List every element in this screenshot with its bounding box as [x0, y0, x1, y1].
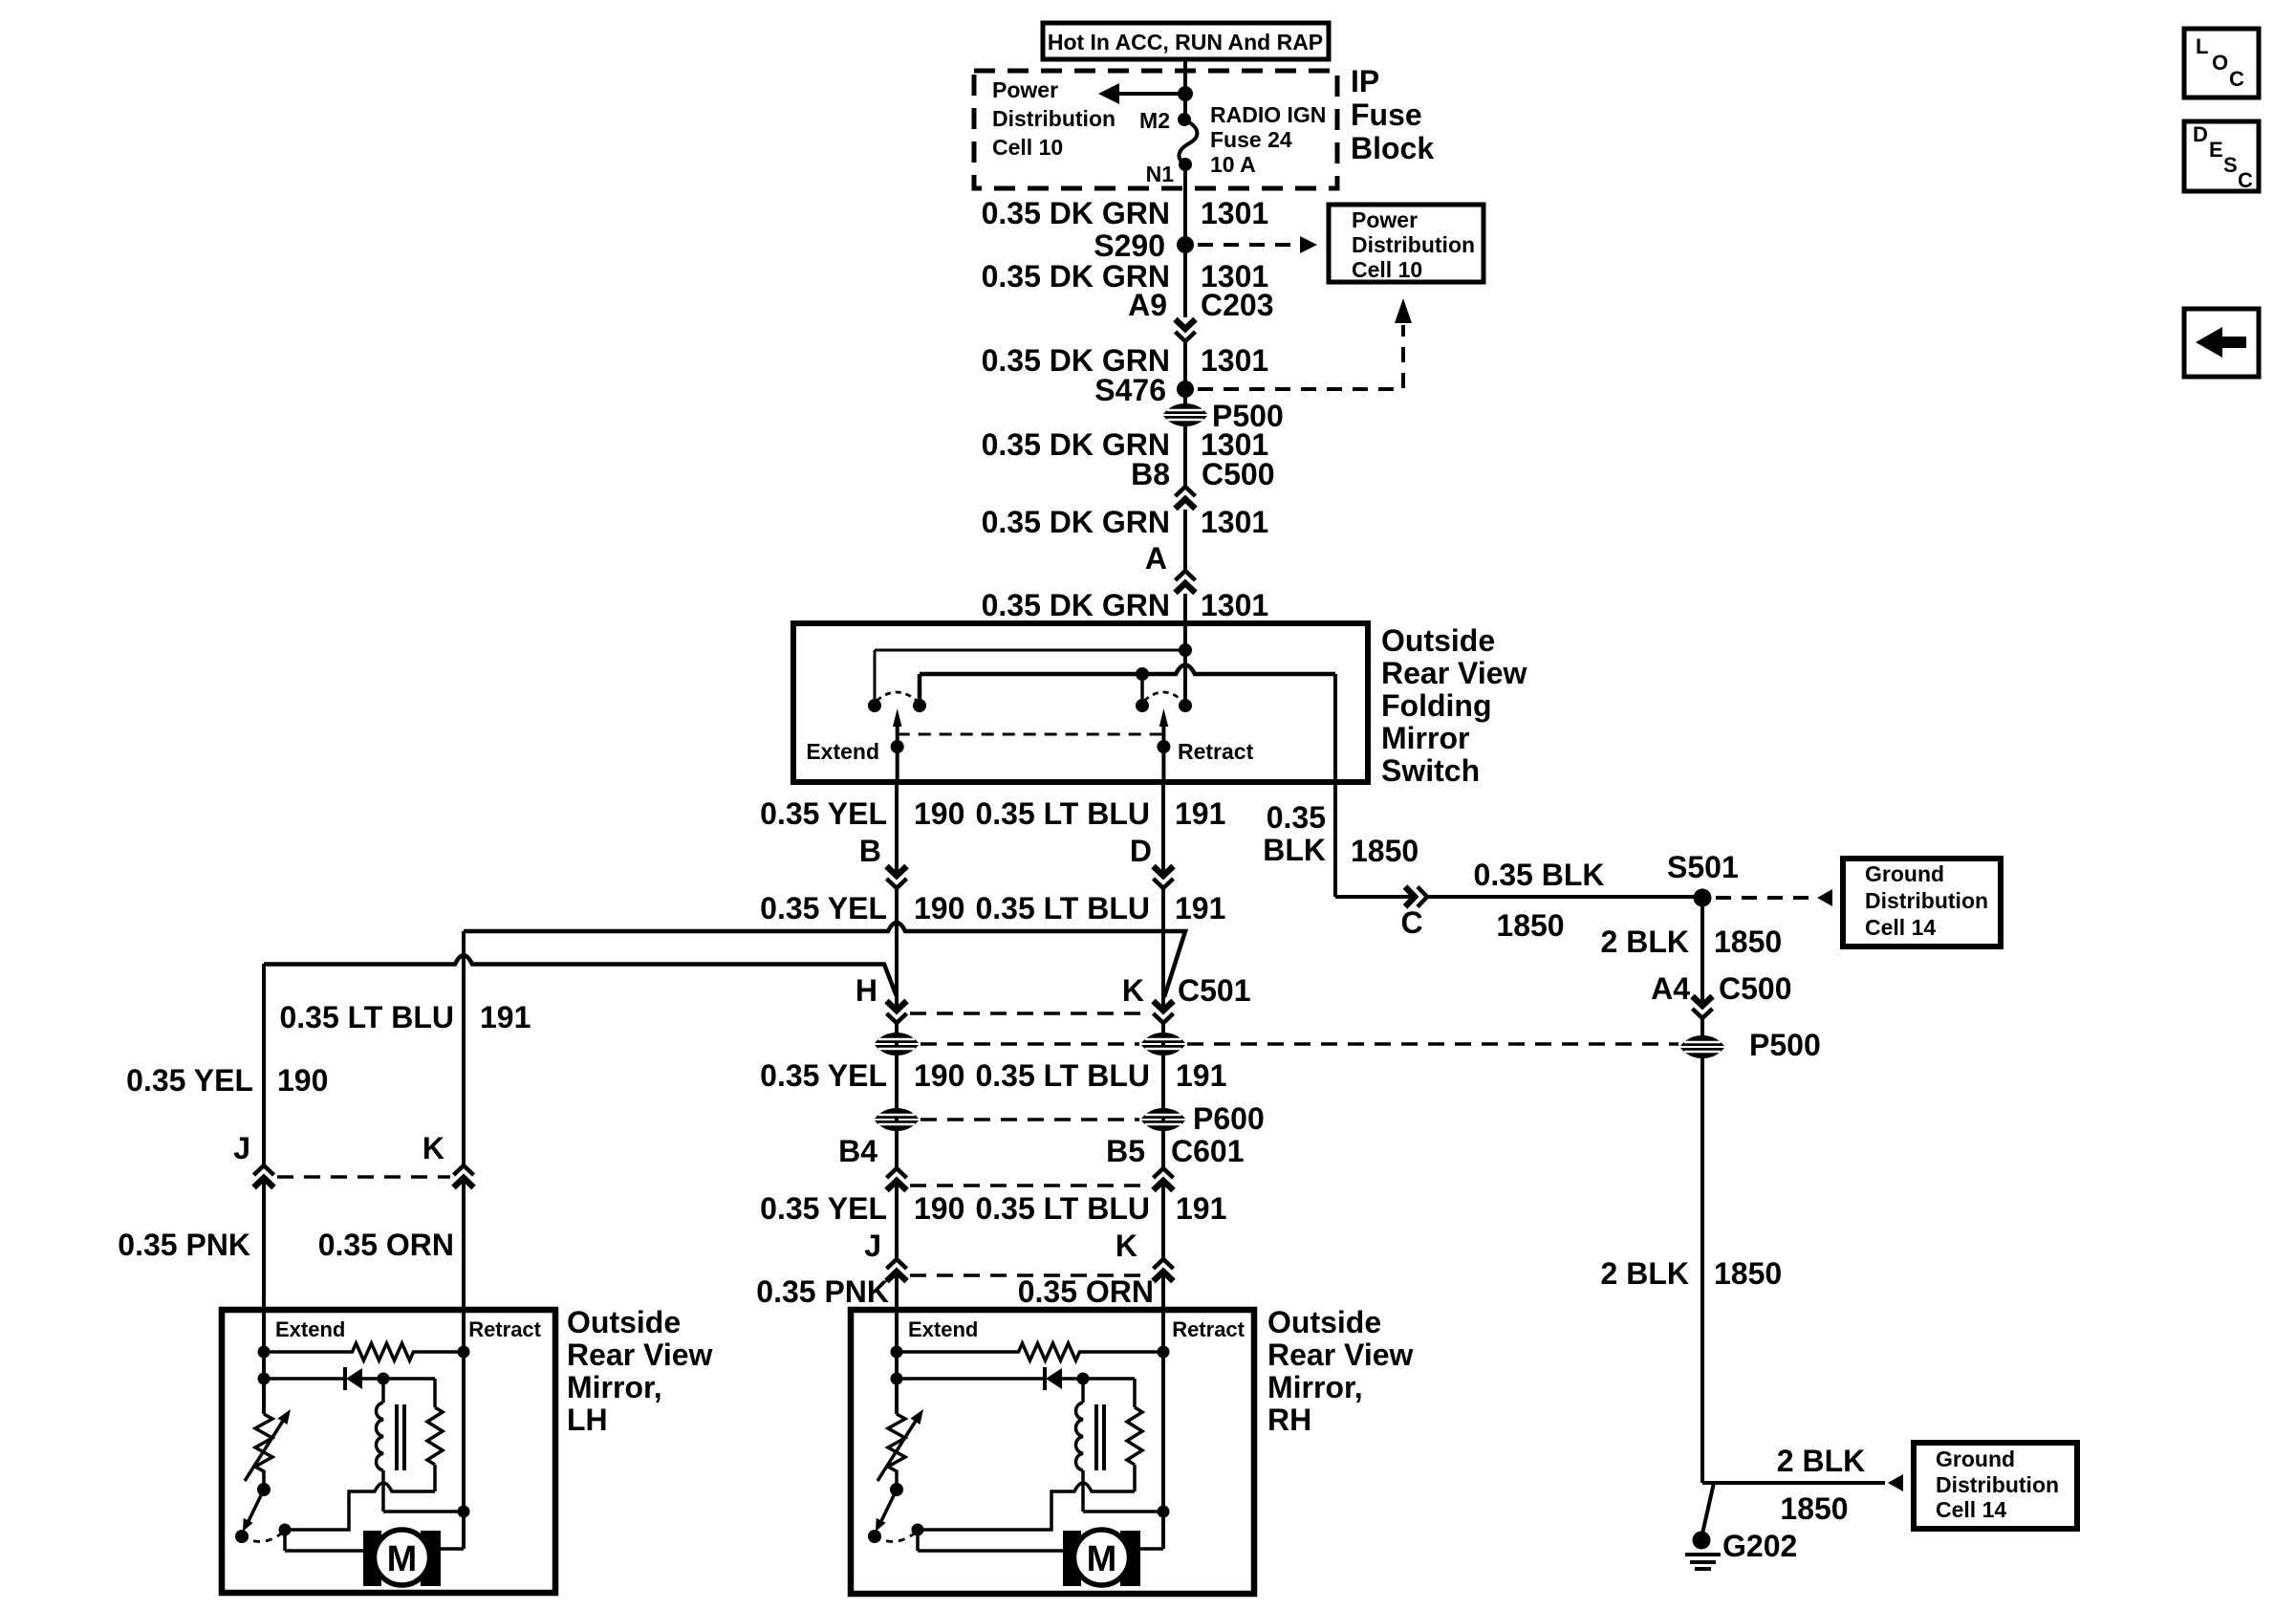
wire label 0.35 LT BLU 191 (left)	[279, 1000, 531, 1034]
svg-text:Rear View: Rear View	[567, 1338, 713, 1372]
svg-text:S476: S476	[1094, 373, 1166, 407]
RH mirror title	[1267, 1305, 1414, 1437]
connector arrow C500 (ground)	[1693, 996, 1713, 1018]
label box: Hot In ACC, RUN And RAP	[1043, 23, 1329, 59]
svg-text:1850: 1850	[1780, 1491, 1848, 1526]
wire: C203 to S476	[1183, 340, 1187, 404]
svg-text:A9: A9	[1128, 288, 1167, 322]
RH mirror connector dashed boundary	[910, 1273, 1151, 1277]
diode	[897, 1367, 1090, 1390]
connector arrow C203	[1176, 319, 1196, 341]
wire label 0.35 DK GRN 1301 (row 4)	[982, 427, 1269, 462]
svg-text:Switch: Switch	[1381, 753, 1480, 788]
svg-text:10 A: 10 A	[1210, 152, 1256, 177]
fuse name label	[1210, 102, 1326, 177]
connector C601 pin B5	[1106, 1134, 1244, 1168]
svg-text:C500: C500	[1719, 971, 1792, 1006]
svg-text:K: K	[422, 1131, 444, 1165]
LH mirror pin K	[422, 1131, 444, 1165]
wire: P500 to ground branch	[1700, 1057, 1704, 1483]
wire: C500 to node A	[1183, 510, 1187, 571]
svg-text:BLK: BLK	[1263, 833, 1326, 867]
switch title label	[1381, 623, 1527, 788]
svg-text:0.35 DK GRN: 0.35 DK GRN	[982, 588, 1170, 622]
wire label 0.35 YEL 190 (row 3)	[760, 1058, 964, 1093]
connector arrow below pin D	[1154, 866, 1174, 888]
wire label 0.35 DK GRN 1301 (row 2)	[982, 259, 1269, 294]
svg-text:Retract: Retract	[1178, 739, 1254, 764]
wire: into switch	[1183, 594, 1187, 650]
svg-text:0.35 YEL: 0.35 YEL	[760, 1191, 887, 1226]
wire label 2 BLK 1850 (lower)	[1601, 1256, 1783, 1291]
svg-text:0.35 DK GRN: 0.35 DK GRN	[982, 196, 1170, 230]
DESC icon box	[2184, 121, 2259, 192]
wire label 0.35 LT BLU 191 (row 3)	[975, 1058, 1226, 1093]
limit switch wiper	[235, 1490, 264, 1543]
svg-text:Fuse 24: Fuse 24	[1210, 127, 1292, 152]
wire label 0.35 DK GRN 1301 (row 6)	[982, 588, 1269, 622]
wire: coil tail to retract wire	[383, 1470, 464, 1512]
svg-text:1850: 1850	[1714, 1256, 1782, 1291]
svg-text:B8: B8	[1131, 457, 1170, 491]
wire label 2 BLK (branch)	[1777, 1444, 1865, 1478]
svg-text:Distribution: Distribution	[992, 106, 1116, 131]
Extend label (LH)	[275, 1317, 345, 1341]
svg-text:0.35 ORN: 0.35 ORN	[1018, 1274, 1154, 1309]
Outside Rear View Folding Mirror Switch box	[793, 623, 1368, 782]
wire label 0.35 LT BLU 191 (row 2)	[975, 891, 1225, 925]
retract wiper arrow	[1157, 708, 1170, 782]
Retract label (LH)	[468, 1317, 541, 1341]
switch pin A	[1145, 541, 1167, 576]
mirror LH: retract feed wire	[458, 1316, 470, 1549]
wire: node to fuse terminal M2	[1183, 94, 1187, 120]
wire: feed to extend contact	[868, 650, 881, 712]
Power Distribution Cell 10 label (in fuse block)	[992, 77, 1116, 160]
wire: shunt return (hops over coil tail)	[912, 1483, 1136, 1536]
svg-text:Folding: Folding	[1381, 688, 1492, 723]
ground G202	[1685, 1529, 1797, 1569]
svg-text:0.35 BLK: 0.35 BLK	[1474, 858, 1605, 892]
pin label M2	[1139, 108, 1170, 133]
svg-text:C601: C601	[1171, 1134, 1245, 1168]
dashed arrow S290 to Power Distribution Cell 10	[1198, 236, 1317, 253]
RH mirror pin J	[864, 1229, 881, 1263]
svg-text:Rear View: Rear View	[1267, 1338, 1414, 1372]
svg-text:J: J	[233, 1131, 250, 1165]
connector arrow C601 (D wire)	[1154, 1168, 1174, 1190]
branch bus H2 to LH mirror extend (hops over K branch)	[264, 955, 897, 995]
svg-text:N1: N1	[1146, 162, 1175, 186]
bulkhead dashed boundary to P500	[921, 1042, 1679, 1046]
switch coupling dashed link	[898, 733, 1164, 736]
wire label 0.35 LT BLU 191 (row 4)	[975, 1191, 1226, 1226]
motor M	[1063, 1530, 1140, 1586]
svg-text:D: D	[2193, 122, 2208, 146]
retract switch blade (dashed)	[1144, 692, 1182, 701]
wire: switch Retract output D (0.35 LT BLU 191)	[1161, 782, 1165, 1316]
svg-text:0.35 YEL: 0.35 YEL	[126, 1063, 253, 1098]
svg-text:0.35 YEL: 0.35 YEL	[760, 1058, 887, 1093]
svg-text:B5: B5	[1106, 1134, 1145, 1168]
wire: shunt return (hops over coil tail)	[279, 1483, 436, 1536]
dashed link S476 to Power Distribution Cell 10	[1198, 298, 1412, 389]
svg-text:0.35 LT BLU: 0.35 LT BLU	[975, 891, 1150, 925]
svg-text:Hot In ACC, RUN And RAP: Hot In ACC, RUN And RAP	[1048, 30, 1323, 54]
svg-text:K: K	[1116, 1229, 1137, 1263]
junction node at fuse feed	[1178, 86, 1193, 101]
svg-text:P500: P500	[1749, 1028, 1821, 1062]
motor M	[363, 1530, 441, 1586]
diode	[264, 1367, 390, 1390]
limit switch dashed blade	[242, 1532, 284, 1541]
connector C203 pin A9	[1128, 288, 1273, 322]
svg-text:191: 191	[1176, 1191, 1226, 1226]
connector C500 pin B8	[1131, 457, 1274, 491]
relay coil	[376, 1379, 383, 1470]
svg-text:0.35 PNK: 0.35 PNK	[756, 1274, 889, 1309]
svg-text:S501: S501	[1667, 850, 1739, 884]
relay core	[397, 1404, 404, 1470]
wire label 0.35 YEL 190 (row 4)	[760, 1191, 964, 1226]
svg-text:0.35 LT BLU: 0.35 LT BLU	[975, 796, 1150, 831]
wire: K branch to LH mirror (0.35 LT BLU)	[462, 931, 466, 1316]
svg-text:S290: S290	[1094, 228, 1165, 263]
wire: retract wire to motor	[1140, 1547, 1163, 1551]
connector arrow C501 (D wire)	[1154, 1001, 1174, 1023]
splice S476	[1094, 373, 1194, 407]
Retract label (RH)	[1172, 1317, 1245, 1341]
svg-text:H: H	[856, 973, 877, 1008]
svg-text:1301: 1301	[1201, 196, 1268, 230]
svg-text:Fuse: Fuse	[1351, 98, 1422, 132]
dashed arrow S501 to Ground Distribution Cell 14	[1716, 889, 1832, 906]
svg-text:Power: Power	[1352, 207, 1418, 232]
pass-through connector P600 (B wire)	[875, 1108, 919, 1131]
relay core	[1096, 1404, 1104, 1470]
svg-text:Extend: Extend	[908, 1317, 978, 1341]
svg-text:RADIO IGN: RADIO IGN	[1210, 102, 1326, 127]
svg-text:Power: Power	[992, 77, 1058, 102]
svg-text:1850: 1850	[1496, 908, 1564, 943]
svg-text:M2: M2	[1139, 108, 1170, 133]
svg-text:Ground: Ground	[1865, 861, 1944, 886]
svg-text:G202: G202	[1722, 1529, 1797, 1563]
svg-text:190: 190	[277, 1063, 328, 1098]
wire: limit switch to motor	[285, 1530, 363, 1551]
connector C501 dashed boundary	[910, 1012, 1151, 1015]
svg-text:Cell 10: Cell 10	[992, 135, 1063, 160]
mirror RH: retract feed wire	[1158, 1316, 1170, 1549]
wire: retract wire to motor	[441, 1547, 464, 1551]
resistor (heater) between extend and retract	[264, 1343, 464, 1360]
LOC icon box	[2184, 29, 2259, 98]
wire label 0.35 DK GRN 1301 (row 5)	[982, 505, 1269, 539]
svg-text:0.35 YEL: 0.35 YEL	[760, 891, 887, 925]
svg-text:Mirror,: Mirror,	[567, 1370, 662, 1404]
pass-through connector P500 (power)	[1163, 399, 1284, 433]
svg-text:J: J	[864, 1229, 881, 1263]
svg-text:Block: Block	[1351, 131, 1434, 165]
connector arrow at RH mirror pin K	[1154, 1259, 1174, 1281]
RH mirror pin K	[1116, 1229, 1137, 1263]
svg-text:M: M	[1087, 1539, 1117, 1579]
svg-text:1301: 1301	[1201, 588, 1268, 622]
svg-text:E: E	[2209, 138, 2223, 162]
svg-text:0.35 YEL: 0.35 YEL	[760, 796, 887, 831]
svg-text:M: M	[387, 1539, 418, 1579]
wire: feed from Hot In box into fuse block	[1183, 59, 1187, 94]
wire label 0.35 ORN (LH)	[318, 1228, 454, 1262]
svg-text:Ground: Ground	[1936, 1447, 2015, 1471]
svg-text:0.35 LT BLU: 0.35 LT BLU	[975, 1058, 1150, 1093]
wire label 0.35 YEL 190 (left)	[126, 1063, 328, 1098]
svg-text:RH: RH	[1267, 1403, 1311, 1437]
svg-text:Extend: Extend	[806, 739, 879, 764]
svg-text:1301: 1301	[1201, 505, 1268, 539]
svg-text:IP: IP	[1351, 64, 1379, 98]
Outside Rear View Mirror LH box	[222, 1310, 555, 1593]
svg-text:Retract: Retract	[468, 1317, 541, 1341]
svg-text:2 BLK: 2 BLK	[1777, 1444, 1865, 1478]
svg-text:Mirror: Mirror	[1381, 721, 1469, 755]
wire: bus to extend output contact	[913, 674, 926, 712]
LH mirror pin J	[233, 1131, 250, 1165]
rheostat (position feedback)	[245, 1409, 291, 1496]
wire label 0.35 PNK (LH)	[118, 1228, 250, 1262]
extend switch blade (dashed)	[877, 692, 917, 701]
pass-through connector P600 (D wire)	[1141, 1101, 1265, 1136]
svg-text:LH: LH	[567, 1403, 608, 1437]
pass-through connector P500 (ground)	[1680, 1028, 1821, 1062]
LH mirror connector dashed boundary	[277, 1175, 450, 1179]
svg-text:Mirror,: Mirror,	[1267, 1370, 1363, 1404]
reference box: Power Distribution Cell 10	[1329, 205, 1484, 282]
connector C500 pin A4	[1651, 971, 1791, 1006]
switch pin B	[859, 834, 881, 868]
wire: branch to Ground Distribution Cell 14	[1702, 1481, 1885, 1485]
wire label 1850 (branch)	[1780, 1491, 1848, 1526]
wire: slant to ground G202	[1702, 1483, 1714, 1534]
rheostat (position feedback)	[877, 1409, 923, 1496]
svg-text:190: 190	[914, 891, 964, 925]
reference box: Ground Distribution Cell 14 (upper)	[1843, 859, 2001, 946]
svg-text:1850: 1850	[1714, 925, 1782, 959]
connector arrow C500	[1176, 487, 1196, 509]
resistor (relay shunt)	[1083, 1379, 1142, 1491]
svg-text:C203: C203	[1201, 288, 1274, 322]
connector arrow at switch pin A	[1176, 571, 1196, 593]
back arrow icon box	[2184, 309, 2259, 377]
connector C601 pin B4	[838, 1134, 877, 1168]
svg-text:0.35 DK GRN: 0.35 DK GRN	[982, 505, 1170, 539]
Extend label (RH)	[908, 1317, 978, 1341]
svg-text:191: 191	[1175, 796, 1225, 831]
switch feed bus (node)	[875, 643, 1192, 657]
fuse RADIO IGN Fuse 24 10 A (element)	[1178, 113, 1197, 171]
svg-text:A: A	[1145, 541, 1167, 576]
svg-text:C: C	[1400, 905, 1422, 940]
connector arrow at RH mirror pin J	[887, 1259, 907, 1281]
pass-through connector (B wire, bulkhead)	[875, 1033, 919, 1055]
connector arrow C601 (B wire)	[887, 1168, 907, 1190]
svg-text:C500: C500	[1202, 457, 1275, 491]
pass-through connector (D wire, bulkhead)	[1141, 1033, 1185, 1055]
wire label 0.35 YEL 190 (row 2)	[760, 891, 964, 925]
svg-text:190: 190	[914, 1191, 964, 1226]
arrow into Ground Distribution Cell 14 (lower)	[1888, 1474, 1903, 1491]
svg-text:1850: 1850	[1351, 834, 1419, 868]
pin label N1	[1146, 162, 1175, 186]
svg-text:2 BLK: 2 BLK	[1601, 925, 1689, 959]
limit switch dashed blade	[875, 1532, 917, 1541]
connector arrow pin C	[1400, 887, 1427, 941]
svg-text:Cell 14: Cell 14	[1936, 1497, 2006, 1522]
wire label 0.35 ORN (RH)	[1018, 1274, 1154, 1309]
svg-text:0.35 LT BLU: 0.35 LT BLU	[975, 1191, 1150, 1226]
wire: BLK to S501	[1335, 895, 1702, 899]
svg-text:Distribution: Distribution	[1936, 1472, 2059, 1497]
limit switch wiper	[868, 1490, 897, 1543]
resistor (relay shunt)	[383, 1379, 443, 1491]
splice S501	[1667, 850, 1739, 907]
mirror LH: extend feed wire	[258, 1316, 271, 1414]
wire: J branch to LH mirror (0.35 YEL)	[262, 964, 266, 1316]
switch output bus (with hop over main wire)	[920, 665, 1335, 675]
svg-text:A4: A4	[1651, 971, 1690, 1006]
splice S290	[1094, 228, 1194, 263]
svg-text:0.35 ORN: 0.35 ORN	[318, 1228, 454, 1262]
wire label 0.35 YEL 190 (row 1)	[760, 796, 964, 831]
svg-text:Cell 10: Cell 10	[1352, 257, 1422, 282]
wire: S501 down to C500	[1700, 898, 1704, 1036]
switch pin D	[1130, 834, 1152, 868]
svg-text:Outside: Outside	[1381, 623, 1495, 658]
svg-text:Distribution: Distribution	[1352, 232, 1475, 257]
svg-text:0.35 LT BLU: 0.35 LT BLU	[279, 1000, 454, 1034]
wire: main to retract contact	[1179, 650, 1192, 712]
wire label 0.35 LT BLU 191 (row 1)	[975, 796, 1225, 831]
arrow to Power Distribution Cell 10	[1098, 83, 1185, 104]
connector arrow at LH mirror pin J	[254, 1165, 274, 1187]
svg-text:P600: P600	[1193, 1101, 1265, 1136]
LH mirror title	[567, 1305, 713, 1437]
wire label 0.35 BLK (vertical part)	[1263, 800, 1419, 868]
svg-text:C501: C501	[1178, 973, 1251, 1008]
wire: coil tail to retract wire	[1083, 1470, 1163, 1512]
wire label 0.35 DK GRN 1301 (row 3)	[982, 343, 1269, 378]
IP fuse block dashed box	[974, 71, 1337, 188]
svg-text:190: 190	[914, 1058, 964, 1093]
Retract label (switch)	[1178, 739, 1254, 764]
Extend label (switch)	[806, 739, 879, 764]
wire label 0.35 PNK (RH)	[756, 1274, 889, 1309]
wire label 0.35 BLK 1850 (horizontal)	[1474, 858, 1605, 943]
svg-text:191: 191	[1175, 891, 1225, 925]
svg-text:C: C	[2229, 67, 2244, 91]
wire: P500 to connector C500	[1183, 426, 1187, 487]
svg-text:B4: B4	[838, 1134, 877, 1168]
wire label 0.35 DK GRN 1301 (row 1)	[982, 196, 1269, 230]
svg-text:K: K	[1122, 973, 1144, 1008]
IP Fuse Block label	[1351, 64, 1434, 165]
connector C601 dashed boundary	[910, 1184, 1151, 1187]
svg-text:0.35 PNK: 0.35 PNK	[118, 1228, 250, 1262]
svg-text:S: S	[2223, 153, 2238, 177]
relay coil	[1075, 1379, 1083, 1470]
branch bus H1 to LH mirror retract (hops over B wire)	[464, 923, 1185, 997]
svg-text:B: B	[859, 834, 881, 868]
wire: N1 down to S290	[1183, 164, 1187, 245]
P600 dashed boundary	[921, 1118, 1139, 1121]
connector C501 pin H	[856, 973, 877, 1008]
svg-text:Outside: Outside	[567, 1305, 681, 1339]
svg-text:Cell 14: Cell 14	[1865, 915, 1936, 940]
svg-text:Extend: Extend	[275, 1317, 345, 1341]
reference box: Ground Distribution Cell 14 (lower)	[1914, 1443, 2077, 1529]
svg-text:191: 191	[480, 1000, 531, 1034]
svg-text:2 BLK: 2 BLK	[1601, 1256, 1689, 1291]
svg-text:1301: 1301	[1201, 343, 1268, 378]
svg-text:Retract: Retract	[1172, 1317, 1245, 1341]
mirror RH: extend feed wire	[891, 1316, 903, 1414]
Outside Rear View Mirror RH box	[851, 1310, 1254, 1594]
wire: switch Extend output B (0.35 YEL 190)	[895, 782, 899, 1316]
svg-text:L: L	[2196, 34, 2208, 58]
resistor (heater) between extend and retract	[897, 1343, 1163, 1360]
wire label 2 BLK 1850 (upper)	[1601, 925, 1783, 959]
connector C501 pin K	[1122, 973, 1251, 1008]
wire: S290 to connector C203	[1183, 245, 1187, 317]
svg-text:Outside: Outside	[1267, 1305, 1381, 1339]
svg-text:Distribution: Distribution	[1865, 888, 1988, 913]
connector arrow at LH mirror pin K	[454, 1165, 474, 1187]
connector arrow C501 (B wire)	[887, 1001, 907, 1023]
wire: switch ground output (0.35 BLK)	[1333, 674, 1337, 897]
svg-text:0.35: 0.35	[1267, 800, 1326, 835]
svg-text:191: 191	[1176, 1058, 1226, 1093]
extend wiper arrow	[891, 708, 904, 782]
connector arrow below pin B	[887, 866, 907, 888]
svg-text:D: D	[1130, 834, 1152, 868]
svg-text:190: 190	[914, 796, 964, 831]
wire: limit switch to motor	[918, 1530, 1063, 1551]
wire: bus to retract output contact	[1136, 667, 1149, 712]
svg-text:C: C	[2238, 168, 2253, 192]
svg-text:O: O	[2212, 51, 2228, 75]
svg-text:Rear View: Rear View	[1381, 656, 1527, 690]
